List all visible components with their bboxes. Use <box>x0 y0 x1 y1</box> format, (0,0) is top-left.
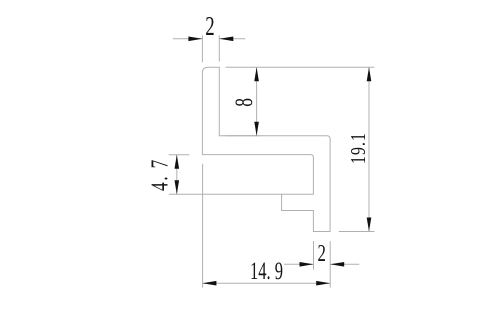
svg-text:14. 9: 14. 9 <box>250 257 283 285</box>
svg-text:19.1: 19.1 <box>347 132 371 164</box>
svg-text:8: 8 <box>230 98 258 107</box>
svg-text:2: 2 <box>205 12 214 42</box>
svg-text:2: 2 <box>317 241 325 266</box>
svg-text:4. 7: 4. 7 <box>146 158 174 191</box>
